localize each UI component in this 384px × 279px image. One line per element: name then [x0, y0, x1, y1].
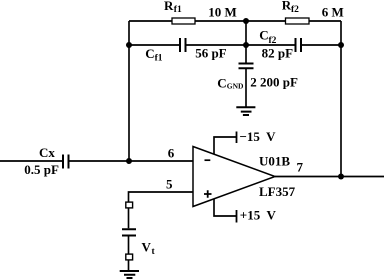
junction cap rail right	[338, 42, 344, 48]
svg-text:R: R	[164, 0, 174, 13]
+15V terminal bar	[236, 210, 238, 223]
ground bottom (Vt)	[120, 271, 139, 278]
op-amp minus sign	[205, 159, 211, 161]
svg-text:2 200 pF: 2 200 pF	[250, 74, 298, 89]
capacitor Cx	[63, 155, 69, 169]
svg-text:Cx: Cx	[39, 145, 55, 160]
terminal square upper	[126, 202, 133, 208]
svg-text:f1: f1	[174, 5, 182, 15]
svg-text:+15 V: +15 V	[240, 207, 277, 222]
svg-text:82 pF: 82 pF	[262, 45, 293, 60]
resistor Rf1	[172, 18, 195, 24]
junction top rail	[243, 18, 249, 24]
-15V terminal bar	[236, 132, 238, 144]
svg-text:C: C	[217, 76, 226, 91]
svg-text:7: 7	[297, 160, 304, 175]
svg-text:GND: GND	[227, 82, 244, 91]
wire input	[0, 160, 193, 162]
svg-text:6: 6	[168, 146, 175, 161]
svg-text:6 M: 6 M	[322, 5, 344, 20]
junction output node	[338, 174, 344, 180]
junction cap rail left	[126, 42, 132, 48]
wire -15V tap	[214, 137, 236, 155]
svg-text:C: C	[259, 27, 268, 42]
svg-text:U01B: U01B	[259, 154, 290, 169]
svg-text:C: C	[145, 46, 154, 61]
svg-text:0.5 pF: 0.5 pF	[24, 162, 59, 177]
junction cap rail middle	[243, 42, 249, 48]
wire right vertical	[340, 21, 342, 177]
wire top rail	[129, 20, 341, 22]
svg-text:−15 V: −15 V	[240, 129, 277, 144]
wire feedback cap rail	[129, 44, 341, 46]
svg-text:5: 5	[166, 177, 173, 192]
wire left vertical	[128, 21, 130, 161]
terminal square lower	[126, 254, 133, 260]
op-amp U1 triangle	[193, 147, 275, 207]
svg-text:56 pF: 56 pF	[195, 45, 226, 60]
svg-text:f2: f2	[291, 5, 299, 15]
wire +15V tap	[214, 199, 236, 217]
svg-text:f1: f1	[155, 54, 163, 64]
capacitor Cf2	[296, 38, 302, 52]
capacitor CGND	[239, 64, 254, 69]
wire middle vertical	[245, 21, 247, 107]
ground middle (CGND)	[236, 107, 255, 115]
svg-text:t: t	[152, 247, 156, 257]
wire output	[275, 176, 384, 178]
svg-text:10 M: 10 M	[208, 5, 237, 20]
source Vt plates	[122, 229, 136, 235]
wire pin5	[129, 192, 194, 270]
op-amp plus sign	[204, 190, 212, 198]
resistor Rf2	[286, 18, 310, 24]
junction input node	[126, 158, 132, 164]
capacitor Cf1	[180, 38, 186, 52]
svg-text:V: V	[142, 240, 152, 255]
svg-text:LF357: LF357	[259, 184, 296, 199]
